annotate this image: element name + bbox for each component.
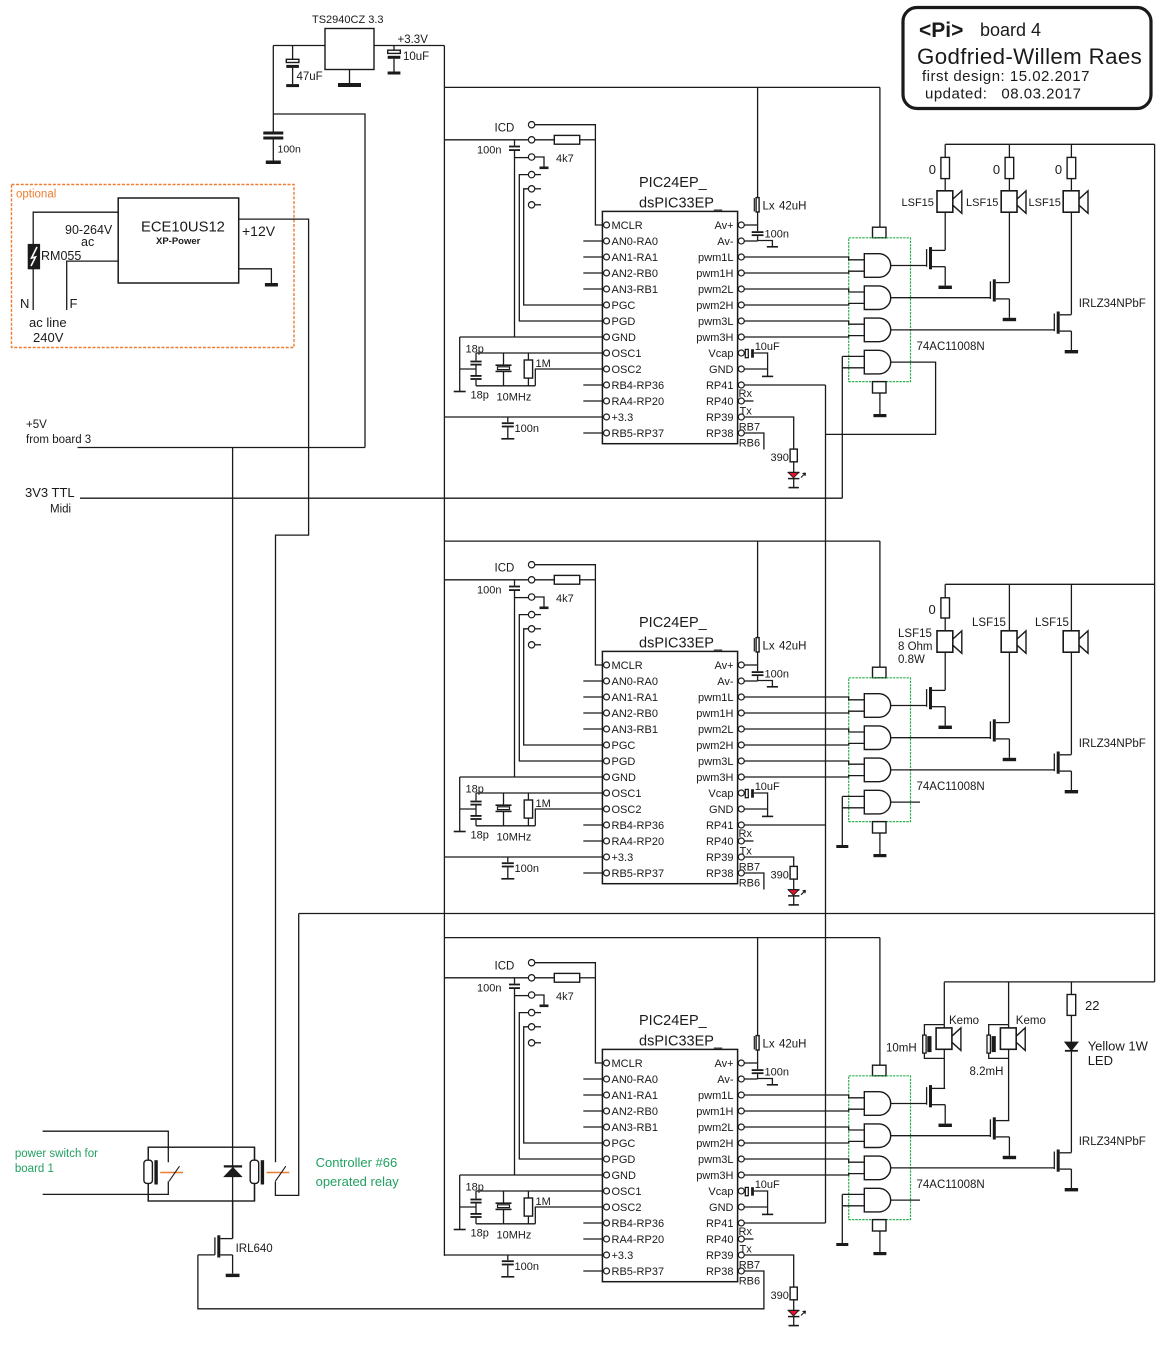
svg-text:4k7: 4k7: [556, 593, 574, 605]
svg-text:Rx: Rx: [739, 1226, 753, 1238]
transistor IRLZ34NPbF Q21: [891, 687, 946, 709]
wire RP38 RB6 stub (board 2): [739, 873, 764, 890]
svg-text:Av-: Av-: [717, 1074, 734, 1086]
transistor IRLZ34NPbF Q33: [891, 1150, 1072, 1172]
wire pwm3L to gate (board 3): [744, 1159, 864, 1162]
wire pwm1L to gate (board 1): [744, 257, 864, 260]
wire pwm1H to gate (board 1): [744, 271, 864, 273]
wire +12V: [239, 219, 309, 1162]
svg-text:10uF: 10uF: [403, 51, 429, 63]
wire OSC2 (board 1): [535, 369, 603, 386]
AND gate 1 (board 3): [864, 1092, 890, 1116]
wire speaker to drain (board 3, ch2): [1008, 1049, 1010, 1120]
wire ICD PGD (board 1): [519, 175, 603, 321]
resistor 0 (board 1, ch3): [1055, 144, 1076, 191]
wire GND net to crystal (board 2): [460, 776, 604, 778]
ground crystal (board 1): [454, 337, 476, 392]
svg-text:Kemo: Kemo: [949, 1015, 979, 1027]
wire ICD PGC (board 3): [524, 1027, 604, 1143]
svg-text:AN2-RB0: AN2-RB0: [612, 708, 658, 720]
svg-text:100n: 100n: [765, 1067, 789, 1079]
svg-text:ac: ac: [81, 235, 94, 249]
svg-text:100n: 100n: [477, 585, 501, 597]
svg-text:MCLR: MCLR: [612, 1058, 643, 1070]
label 10mH: [886, 1043, 917, 1055]
svg-text:RP41: RP41: [706, 380, 734, 392]
svg-text:pwm3L: pwm3L: [698, 1154, 733, 1166]
wire +3.3V feed block 3: [444, 937, 880, 939]
node +5V from board 3: [26, 419, 91, 446]
microcontroller PIC24EP_/dsPIC33EP_ U3: [602, 1013, 737, 1282]
svg-text:OSC2: OSC2: [612, 1202, 642, 1214]
wire speaker to drain (board 2, ch2): [1008, 652, 1010, 722]
resistor 1M (board 2): [524, 793, 551, 826]
inductor Lx 42uH (board 2): [754, 541, 806, 665]
wire Av+ (board 2): [744, 664, 757, 666]
wire RP40 Tx stub (board 1): [740, 401, 754, 418]
U1 unconnected input stubs: [583, 241, 603, 433]
ground power module: [239, 269, 278, 287]
wire crystal loop bottom (board 1): [476, 385, 535, 387]
connector ICD header (board 1): [495, 122, 535, 209]
AND gate 2 (board 3): [864, 1124, 890, 1148]
inductor 10mH (board 3): [923, 1025, 945, 1059]
capacitor 100n (+3.3 rail, board 1): [501, 417, 539, 439]
svg-text:AN0-RA0: AN0-RA0: [612, 1074, 658, 1086]
svg-text:RB7: RB7: [739, 862, 760, 874]
svg-text:0: 0: [929, 602, 936, 617]
wire GND pin (board 1): [744, 368, 767, 370]
svg-text:18p: 18p: [471, 830, 489, 842]
svg-text:8.2mH: 8.2mH: [970, 1066, 1004, 1078]
svg-text:RB4-RP36: RB4-RP36: [612, 1218, 665, 1230]
wire pwm1H to gate (board 3): [744, 1109, 864, 1111]
AND gate 4 (board 1): [864, 350, 890, 374]
svg-text:board 1: board 1: [15, 1163, 54, 1175]
wire speaker to drain (board 3, ch1): [943, 1049, 945, 1088]
U2 left pins: [604, 660, 665, 880]
wire +5V line: [78, 447, 366, 449]
capacitor 18p upper (board 2): [466, 783, 484, 815]
capacitor 100n (+3.3 rail, board 2): [501, 857, 539, 879]
wire MIDI to gate 4 inputs (board 1): [842, 356, 864, 498]
wire pwm2L to gate (board 3): [744, 1127, 864, 1130]
svg-text:IRLZ34NPbF: IRLZ34NPbF: [1079, 298, 1146, 310]
wire GND net to crystal (board 1): [460, 336, 604, 338]
svg-text:LSF15: LSF15: [1029, 197, 1061, 209]
svg-text:240V: 240V: [33, 330, 64, 345]
resistor 4k7 (board 3): [535, 973, 595, 1003]
label +12V: [242, 223, 276, 239]
wire +5V drop to relay: [232, 448, 234, 1239]
svg-text:RP41: RP41: [706, 820, 734, 832]
svg-text:board 4: board 4: [980, 20, 1041, 40]
svg-text:pwm1H: pwm1H: [696, 708, 733, 720]
wire RP40 Tx stub (board 3): [740, 1239, 754, 1256]
wire switched +12V output: [275, 914, 298, 1196]
AND gate 3 (board 3): [864, 1156, 890, 1180]
wire Rx vertical (MIDI to RP41 of all blocks): [825, 385, 827, 1223]
svg-text:100n: 100n: [477, 983, 501, 995]
svg-text:RB5-RP37: RB5-RP37: [612, 1266, 665, 1278]
loudspeaker LSF15 (board 2, ch1): [937, 631, 962, 654]
inductor Lx 42uH (board 1): [754, 87, 806, 225]
AND gate 2 (board 1): [864, 286, 890, 310]
svg-text:100n: 100n: [765, 669, 789, 681]
svg-text:10mH: 10mH: [886, 1043, 917, 1055]
svg-text:100n: 100n: [765, 229, 789, 241]
wire OSC1 (board 3): [476, 1190, 603, 1192]
ground Q23 source: [1065, 771, 1078, 793]
wire Av+ (board 1): [744, 224, 757, 226]
capacitor 100n (+3.3 rail, board 3): [501, 1255, 539, 1277]
AND gate 1 (board 2): [864, 694, 890, 718]
wire pwm2H to gate (board 3): [744, 1141, 864, 1143]
wire ICD VDD rail (board 2): [444, 579, 528, 581]
svg-text:RB4-RP36: RB4-RP36: [612, 820, 665, 832]
ground Q31 source: [939, 1105, 952, 1127]
svg-text:LSF15: LSF15: [972, 617, 1006, 629]
svg-text:RB7: RB7: [739, 1260, 760, 1272]
svg-text:RP38: RP38: [706, 1266, 734, 1278]
AND gate IC 74AC11008N (board 3): [849, 938, 985, 1256]
svg-text:GND: GND: [612, 1170, 637, 1182]
svg-text:AN2-RB0: AN2-RB0: [612, 1106, 658, 1118]
capacitor 100n (ICD, board 2): [477, 580, 520, 597]
wire Av- (board 3): [744, 1078, 757, 1080]
wire ICD PGC (board 2): [524, 629, 604, 745]
capacitor 100n (Av+, board 1): [752, 225, 789, 247]
wire ICD pin1 to MCLR (board 2): [535, 565, 603, 665]
svg-text:1M: 1M: [536, 358, 551, 370]
svg-text:+12V: +12V: [242, 223, 276, 239]
inductor 8.2mH (board 3): [987, 1025, 1009, 1059]
loudspeaker LSF15 (board 1, ch2): [1001, 191, 1026, 214]
power module ECE10US12 U-pwr: [118, 198, 239, 283]
ground Q32 source: [1003, 1137, 1016, 1159]
capacitor 18p upper (board 3): [466, 1181, 484, 1213]
LED red (board 3): [788, 1300, 806, 1326]
svg-text:Lx: Lx: [763, 641, 775, 653]
svg-text:IRLZ34NPbF: IRLZ34NPbF: [1079, 738, 1146, 750]
U3 unconnected input stubs: [583, 1079, 603, 1271]
ground ICD pin3 (board 1): [535, 157, 549, 169]
wire OSC2 (board 3): [535, 1207, 603, 1224]
wire ICD PGC (board 1): [524, 189, 604, 305]
svg-text:ICD: ICD: [495, 563, 515, 575]
label 90-264V ac: [65, 223, 113, 249]
ground IRL640 source: [226, 1255, 240, 1277]
svg-text:ac line: ac line: [29, 315, 67, 330]
svg-text:RP38: RP38: [706, 428, 734, 440]
wire N down: [20, 269, 33, 311]
loudspeaker Kemo (board 3, ch1): [936, 1025, 961, 1051]
wire pwm2H to gate (board 2): [744, 743, 864, 745]
svg-text:+5V: +5V: [26, 419, 47, 431]
LED red (board 2): [788, 879, 806, 905]
connector ICD header (board 2): [495, 562, 535, 649]
wire Av- (board 1): [744, 240, 757, 242]
svg-text:PGD: PGD: [612, 316, 636, 328]
svg-text:ECE10US12: ECE10US12: [141, 220, 225, 236]
svg-text:74AC11008N: 74AC11008N: [917, 1179, 985, 1191]
wire pwm3H to gate (board 2): [744, 776, 864, 777]
svg-text:LSF15: LSF15: [966, 197, 998, 209]
svg-text:42uH: 42uH: [779, 641, 807, 653]
wire speaker rail block 2: [945, 583, 1154, 585]
wire gate 4 output stub (board 2): [891, 801, 920, 803]
svg-text:10uF: 10uF: [755, 341, 780, 353]
svg-text:RB5-RP37: RB5-RP37: [612, 428, 665, 440]
svg-text:LED: LED: [1088, 1053, 1113, 1068]
wire OSC1 (board 2): [476, 792, 603, 794]
svg-text:F: F: [70, 296, 78, 311]
svg-text:0.8W: 0.8W: [898, 654, 925, 666]
U3 left pins: [604, 1058, 665, 1278]
label LSF15 8 Ohm 0.8W (board 2): [898, 628, 933, 666]
wire pwm2L to gate (board 1): [744, 289, 864, 292]
wire speaker rail block 3: [944, 981, 1154, 983]
svg-text:10uF: 10uF: [755, 1179, 780, 1191]
wire F input: [67, 261, 119, 311]
svg-text:OSC1: OSC1: [612, 788, 642, 800]
svg-text:ICD: ICD: [495, 961, 515, 973]
wire rail to speaker (board 2, ch3): [1070, 584, 1072, 631]
svg-text:Lx: Lx: [763, 201, 775, 213]
label IRLZ34NPbF (board 1): [1079, 298, 1146, 310]
transistor IRLZ34NPbF Q13: [891, 312, 1072, 334]
wire ICD pin6 stub (board 1): [535, 204, 541, 206]
svg-text:+3.3: +3.3: [612, 852, 634, 864]
voltage regulator TS2940CZ 3.3: [312, 14, 384, 70]
transistor IRLZ34NPbF Q31: [891, 1085, 946, 1107]
label power switch for board 1: [15, 1148, 98, 1175]
svg-text:power switch for: power switch for: [15, 1148, 98, 1160]
label LSF15 x3 (board 1): [902, 197, 1061, 209]
wire ICD pin6 stub (board 3): [535, 1042, 541, 1044]
svg-text:MCLR: MCLR: [612, 220, 643, 232]
relay contact left: [144, 1147, 183, 1201]
svg-text:22: 22: [1085, 998, 1099, 1013]
svg-text:RP40: RP40: [706, 836, 734, 848]
svg-text:IRLZ34NPbF: IRLZ34NPbF: [1079, 1136, 1146, 1148]
loudspeaker LSF15 (board 1, ch1): [937, 191, 962, 214]
capacitor 100n (Av+, board 2): [752, 665, 789, 687]
svg-text:AN2-RB0: AN2-RB0: [612, 268, 658, 280]
svg-text:18p: 18p: [471, 1228, 489, 1240]
svg-text:PIC24EP_: PIC24EP_: [639, 175, 708, 191]
svg-text:N: N: [20, 296, 29, 311]
transistor IRLZ34NPbF Q22: [891, 719, 1010, 741]
svg-text:AN1-RA1: AN1-RA1: [612, 1090, 658, 1102]
svg-text:RB4-RP36: RB4-RP36: [612, 380, 665, 392]
wire RP38 RB6 stub (board 1): [739, 433, 764, 450]
node +3.3V: [398, 34, 429, 46]
wire rail to speaker (board 2, ch2): [1008, 584, 1010, 631]
resistor 0 (board 1, ch2): [993, 144, 1014, 191]
svg-text:Vcap: Vcap: [708, 1186, 733, 1198]
wire external switch top: [43, 1131, 169, 1162]
svg-text:74AC11008N: 74AC11008N: [917, 341, 985, 353]
svg-text:RB5-RP37: RB5-RP37: [612, 868, 665, 880]
svg-text:1M: 1M: [536, 1196, 551, 1208]
title block: [903, 8, 1151, 109]
ground regulator tab: [338, 70, 361, 88]
resistor 390 (board 3): [771, 1287, 798, 1302]
node 3V3 TTL Midi: [25, 485, 75, 516]
crystal 10MHz X3: [496, 1191, 532, 1241]
svg-text:100n: 100n: [515, 1261, 539, 1273]
svg-text:RA4-RP20: RA4-RP20: [612, 396, 665, 408]
label Kemo x2: [949, 1015, 1046, 1027]
svg-text:RP38: RP38: [706, 868, 734, 880]
ground Q13 source: [1065, 331, 1078, 353]
capacitor 10uF (Vcap, board 2): [744, 781, 780, 816]
svg-text:AN0-RA0: AN0-RA0: [612, 236, 658, 248]
resistor 1M (board 3): [524, 1191, 551, 1224]
ground Q12 source: [1003, 299, 1016, 321]
wire RP39 RB7 (board 1): [739, 417, 794, 449]
svg-text:optional: optional: [16, 189, 56, 201]
wire pwm3L to gate (board 1): [744, 321, 864, 324]
svg-text:42uH: 42uH: [779, 1039, 807, 1051]
wire +3.3V feed block 2: [444, 540, 880, 542]
resistor 4k7 (board 2): [535, 575, 595, 605]
svg-text:pwm1H: pwm1H: [696, 268, 733, 280]
svg-text:+3.3V: +3.3V: [398, 34, 429, 46]
crystal 10MHz X1: [496, 353, 532, 403]
svg-text:AN0-RA0: AN0-RA0: [612, 676, 658, 688]
transistor IRLZ34NPbF Q11: [891, 247, 946, 269]
svg-text:GND: GND: [709, 364, 734, 376]
svg-text:pwm3H: pwm3H: [696, 1170, 733, 1182]
capacitor 10uF (Vcap, board 3): [744, 1179, 780, 1214]
wire pwm3L to gate (board 2): [744, 761, 864, 764]
wire ICD gnd vertical (board 1): [515, 151, 529, 337]
microcontroller PIC24EP_/dsPIC33EP_ U2: [602, 615, 737, 884]
transistor IRLZ34NPbF Q23: [891, 752, 1072, 774]
svg-text:dsPIC33EP_: dsPIC33EP_: [639, 636, 723, 652]
wire ICD gnd vertical (board 3): [515, 989, 529, 1175]
capacitor 100n (ICD, board 1): [477, 140, 520, 157]
resistor 0 (board 1, ch1): [929, 144, 950, 191]
wire +3.3 rail (board 3): [444, 1254, 603, 1256]
diode flyback (relay coil): [224, 1166, 242, 1176]
svg-text:Lx: Lx: [763, 1039, 775, 1051]
svg-text:PGC: PGC: [612, 740, 636, 752]
wire rail drop (board 3, ch1): [943, 982, 945, 1025]
wire regulator input: [273, 45, 325, 47]
svg-text:0: 0: [1055, 162, 1062, 177]
wire GND pin (board 3): [744, 1206, 767, 1208]
svg-text:Av+: Av+: [714, 1058, 733, 1070]
svg-text:OSC1: OSC1: [612, 1186, 642, 1198]
wire switched +12V line: [299, 913, 1155, 915]
svg-text:10MHz: 10MHz: [497, 391, 532, 403]
svg-text:1M: 1M: [536, 798, 551, 810]
AND gate 4 (board 2): [864, 790, 890, 814]
resistor 390 (board 1): [771, 449, 798, 464]
svg-text:dsPIC33EP_: dsPIC33EP_: [639, 1034, 723, 1050]
svg-text:Rx: Rx: [739, 828, 753, 840]
svg-text:RA4-RP20: RA4-RP20: [612, 1234, 665, 1246]
crystal 10MHz X2: [496, 793, 532, 843]
svg-text:RB6: RB6: [739, 1276, 760, 1288]
resistor 4k7 (board 1): [535, 135, 595, 165]
optional AC supply box: [12, 185, 295, 348]
svg-text:dsPIC33EP_: dsPIC33EP_: [639, 196, 723, 212]
AND gate 3 (board 1): [864, 318, 890, 342]
wire GND pin (board 2): [744, 808, 767, 810]
capacitor 18p upper (board 1): [466, 343, 484, 375]
svg-text:Godfried-Willem Raes: Godfried-Willem Raes: [917, 44, 1142, 69]
wire speaker to drain (board 2, ch3): [1070, 652, 1072, 754]
label ac line 240V: [29, 315, 67, 345]
wire pwm1L to gate (board 2): [744, 697, 864, 700]
svg-text:pwm3L: pwm3L: [698, 756, 733, 768]
svg-text:390: 390: [771, 869, 789, 881]
svg-text:pwm3H: pwm3H: [696, 772, 733, 784]
AND gate IC 74AC11008N (board 1): [849, 87, 985, 417]
connector ICD header (board 3): [495, 960, 535, 1047]
svg-text:Kemo: Kemo: [1016, 1015, 1046, 1027]
ground Q11 source: [939, 267, 952, 289]
transistor IRL640 Q7: [198, 1201, 273, 1258]
capacitor 10uF (+3.3V): [388, 46, 430, 75]
svg-text:MCLR: MCLR: [612, 660, 643, 672]
wire +3.3V distribution vertical: [443, 46, 445, 1256]
svg-text:updated: 08.03.2017: updated: 08.03.2017: [925, 86, 1081, 103]
U3 right pins: [696, 1058, 744, 1278]
inductor Lx 42uH (board 3): [754, 938, 806, 1063]
capacitor 18p lower (board 2): [470, 815, 488, 842]
svg-text:RB6: RB6: [739, 878, 760, 890]
svg-text:operated relay: operated relay: [316, 1174, 400, 1189]
svg-text:0: 0: [929, 162, 936, 177]
wire ICD VDD rail (board 1): [444, 139, 528, 141]
wire RP39 RB7 (board 3): [739, 1255, 794, 1287]
capacitor 100n (ICD, board 3): [477, 978, 520, 995]
capacitor 100n (regulator input): [263, 46, 301, 165]
svg-text:pwm2H: pwm2H: [696, 300, 733, 312]
svg-text:Controller #66: Controller #66: [316, 1155, 398, 1170]
svg-text:Rx: Rx: [739, 388, 753, 400]
svg-text:pwm2L: pwm2L: [698, 1122, 733, 1134]
wire pwm3H to gate (board 1): [744, 336, 864, 337]
ground Q33 source: [1065, 1169, 1078, 1191]
svg-text:42uH: 42uH: [779, 201, 807, 213]
varistor RM055: [28, 244, 81, 268]
wire +3.3 rail (board 2): [444, 856, 603, 858]
resistor 390 (board 2): [771, 866, 798, 881]
wire RP38 RB6 to relay driver gate: [198, 1255, 764, 1309]
AND gate 4 (board 3): [864, 1188, 890, 1212]
svg-text:ICD: ICD: [495, 123, 515, 135]
svg-text:Av+: Av+: [714, 220, 733, 232]
LED red (board 1): [788, 462, 806, 488]
svg-text:pwm1L: pwm1L: [698, 252, 733, 264]
wire RP41 Rx (board 3): [739, 1223, 826, 1238]
wire pwm3H to gate (board 3): [744, 1174, 864, 1175]
wire Av- (board 2): [744, 680, 757, 682]
wire ICD VDD rail (board 3): [444, 977, 528, 979]
svg-text:RP39: RP39: [706, 1250, 734, 1262]
svg-text:100n: 100n: [515, 423, 539, 435]
svg-text:4k7: 4k7: [556, 991, 574, 1003]
wire RP39 RB7 (board 2): [739, 857, 794, 874]
label IRLZ34NPbF (board 3): [1079, 1136, 1146, 1148]
svg-text:RA4-RP20: RA4-RP20: [612, 836, 665, 848]
